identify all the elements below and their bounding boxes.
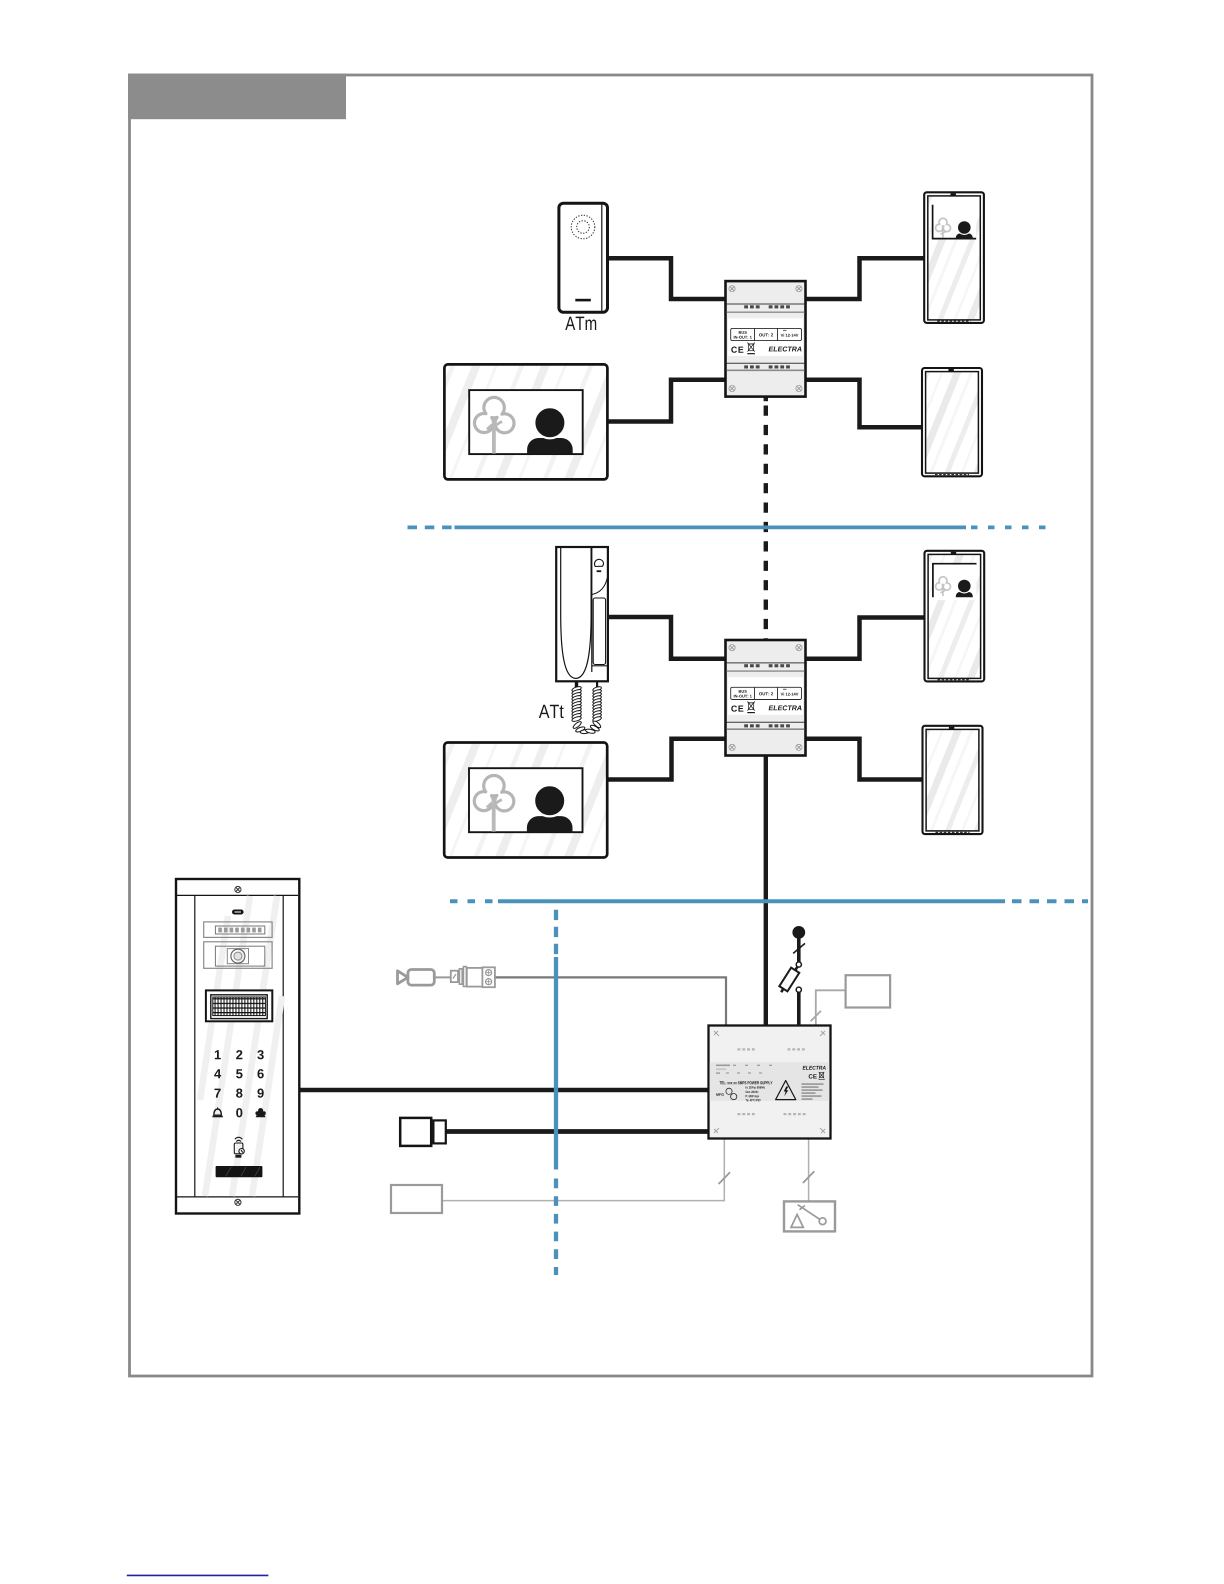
speaker slot bbox=[232, 910, 244, 915]
main bus U2 to PSU bbox=[764, 752, 768, 1026]
screw bottom bbox=[235, 1199, 241, 1205]
wire ATt to distributor U2 bbox=[605, 617, 727, 659]
riser separator vertical bbox=[554, 910, 558, 1275]
mains supply point bbox=[792, 926, 805, 939]
video monitor V3 bbox=[925, 551, 985, 682]
video monitor V2 bbox=[922, 368, 982, 476]
video monitor M1 bbox=[444, 364, 607, 479]
coax camera to PSU bbox=[495, 977, 726, 1026]
video monitor M2 bbox=[444, 743, 607, 858]
wire distributor U2 to video monitor V4 bbox=[804, 739, 925, 780]
RFID reader icon bbox=[234, 1137, 244, 1154]
wire aux box to PSU bbox=[816, 990, 846, 1026]
wire distributor U2 to video monitor V3 bbox=[804, 618, 926, 659]
audio telephone ATt bbox=[556, 547, 608, 681]
camera module bbox=[204, 942, 272, 969]
access key bbox=[255, 1108, 265, 1117]
video monitor V1 bbox=[924, 192, 984, 323]
wire monitor M2 to distributor U2 bbox=[605, 739, 727, 780]
door release bbox=[784, 1201, 835, 1231]
wire monitor M1 to distributor U1 bbox=[605, 380, 727, 422]
footer rule bbox=[127, 1574, 269, 1576]
label ATt bbox=[539, 705, 564, 718]
bottom slot bbox=[216, 1166, 263, 1177]
distributor U1 bbox=[726, 281, 806, 397]
power supply PSU bbox=[709, 1026, 831, 1139]
CCTV camera bbox=[398, 970, 451, 986]
entry panel bbox=[176, 879, 299, 1214]
header block bbox=[128, 74, 346, 120]
fuse-switch bbox=[796, 962, 801, 967]
wire PSU to door release bbox=[808, 1139, 810, 1201]
wire label box to PSU bbox=[442, 1139, 724, 1201]
balun connector bbox=[451, 967, 495, 988]
floor separator line 2 bbox=[450, 899, 1088, 903]
audio monitor ATm bbox=[559, 203, 608, 312]
riser bus dashed (U1 to U2) bbox=[764, 397, 768, 402]
page frame border bbox=[130, 75, 1093, 1376]
label ATm bbox=[565, 317, 596, 330]
wire ATm to distributor U1 bbox=[605, 258, 727, 299]
LCD display bbox=[206, 990, 272, 1021]
auxiliary box bbox=[846, 975, 891, 1007]
bus cable connector to PSU bbox=[446, 1129, 709, 1134]
label box bbox=[391, 1185, 442, 1213]
handset coiled cord bbox=[575, 681, 578, 687]
bell key bbox=[212, 1108, 222, 1117]
floor separator line 1 bbox=[408, 526, 1047, 530]
screw top bbox=[235, 886, 241, 892]
distributor U2 bbox=[726, 640, 806, 756]
wire distributor U1 to video monitor V2 bbox=[804, 380, 924, 427]
name display module bbox=[204, 922, 272, 938]
video monitor V4 bbox=[923, 726, 983, 834]
bus cable entry panel to PSU bbox=[298, 1088, 709, 1093]
keypad digits bbox=[215, 1050, 221, 1059]
cable connector pair bbox=[400, 1118, 431, 1146]
wire distributor U1 to video monitor V1 bbox=[804, 258, 926, 299]
